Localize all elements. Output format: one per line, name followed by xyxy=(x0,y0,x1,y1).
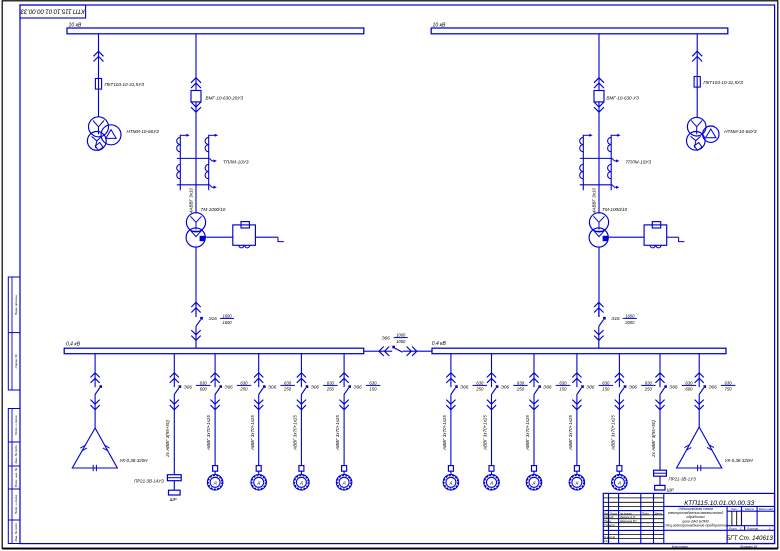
svg-text:Д: Д xyxy=(575,481,579,485)
incomer breaker QF Э16 (drawout) xyxy=(191,302,200,307)
svg-text:750: 750 xyxy=(725,387,733,392)
svg-text:630: 630 xyxy=(685,380,693,385)
svg-text:АВВГ 3х70+1х25: АВВГ 3х70+1х25 xyxy=(206,415,211,451)
feeder breaker QF Э06 xyxy=(450,354,452,388)
svg-text:Дата: Дата xyxy=(654,511,663,515)
wire breaker to CT to transformer xyxy=(195,102,197,214)
svg-text:Э06: Э06 xyxy=(224,384,233,389)
svg-text:Взам. инв. №: Взам. инв. № xyxy=(14,467,18,487)
feeder breaker QF Э06 xyxy=(214,354,216,388)
motor M xyxy=(251,475,267,491)
wire xyxy=(618,471,620,474)
motor terminal box xyxy=(213,466,218,472)
wire box to hook end xyxy=(255,236,278,238)
svg-text:ТПЛМ-10УЗ: ТПЛМ-10УЗ xyxy=(626,160,652,165)
svg-text:КТП115.10.01.00.00.33: КТП115.10.01.00.00.33 xyxy=(684,500,754,507)
svg-text:630: 630 xyxy=(476,380,484,385)
svg-text:Подп.: Подп. xyxy=(642,511,650,515)
svg-text:Д: Д xyxy=(342,481,346,485)
wire feeder down xyxy=(94,394,96,428)
svg-text:ПР21-3В-14УЗ: ПР21-3В-14УЗ xyxy=(134,479,164,484)
motor M xyxy=(526,475,542,491)
motor terminal box xyxy=(617,466,622,472)
disconnector QS chevrons xyxy=(692,51,702,56)
feeder breaker QF Э06 xyxy=(173,354,175,388)
svg-text:Э06: Э06 xyxy=(629,384,638,389)
svg-text:Листов: Листов xyxy=(746,526,758,530)
svg-text:Д: Д xyxy=(449,481,453,485)
svg-text:ТПЛМ-10УЗ: ТПЛМ-10УЗ xyxy=(223,160,249,165)
svg-text:Копировал: Копировал xyxy=(672,545,688,549)
svg-text:2х АВВГ 3(95+50): 2х АВВГ 3(95+50) xyxy=(651,420,656,458)
svg-text:250: 250 xyxy=(475,387,484,392)
wire feeder down xyxy=(214,394,216,465)
svg-text:Э06: Э06 xyxy=(709,384,718,389)
capacitor bank УК-0,38-320Н triangle xyxy=(72,428,117,468)
bus 0.4kV section 1 xyxy=(64,348,364,354)
svg-text:600: 600 xyxy=(200,387,208,392)
bus 0.4kV section 2 xyxy=(432,348,726,354)
svg-text:250: 250 xyxy=(283,387,292,392)
svg-text:Спец.электроснабжение предприя: Спец.электроснабжение предприятий xyxy=(663,524,727,528)
auxiliary box (arrester) xyxy=(233,225,256,245)
wire transformer secondary down xyxy=(598,247,600,317)
svg-text:Э06: Э06 xyxy=(460,384,469,389)
svg-text:250: 250 xyxy=(644,387,653,392)
svg-text:Подп. и дата: Подп. и дата xyxy=(14,415,18,435)
wire xyxy=(173,481,175,491)
svg-text:150: 150 xyxy=(369,387,377,392)
distribution cab ШР box xyxy=(655,485,665,490)
wire box to hook end xyxy=(667,236,679,238)
motor terminal box xyxy=(256,466,261,472)
svg-text:Подп. и дата: Подп. и дата xyxy=(14,495,18,515)
distribution cab ШР box xyxy=(169,490,181,495)
svg-text:150: 150 xyxy=(602,387,610,392)
feeder breaker QF Э06 xyxy=(576,354,578,388)
svg-text:Э06: Э06 xyxy=(543,384,552,389)
svg-text:Э06: Э06 xyxy=(311,384,320,389)
svg-text:4АВВГ 3х10: 4АВВГ 3х10 xyxy=(591,188,596,213)
svg-text:0,4 кВ: 0,4 кВ xyxy=(432,341,447,347)
svg-text:Э16: Э16 xyxy=(209,316,218,321)
svg-text:1600: 1600 xyxy=(222,313,232,318)
incomer breaker QF Э16 (drawout) xyxy=(594,302,603,307)
svg-text:2000: 2000 xyxy=(624,320,635,325)
voltage transformer TV НТМИ circles xyxy=(687,117,706,136)
wire feeder down xyxy=(450,394,452,465)
svg-text:КТП 115.10.01.00.00.33: КТП 115.10.01.00.00.33 xyxy=(20,7,85,14)
wire feeder down xyxy=(173,394,175,474)
wire transformer aux to arrester box xyxy=(205,236,233,238)
motor terminal box xyxy=(532,466,537,472)
wire xyxy=(258,471,260,474)
svg-text:НТМИ-10-66УЗ: НТМИ-10-66УЗ xyxy=(724,129,757,134)
svg-text:1000: 1000 xyxy=(396,333,406,338)
svg-text:ПКТ103-10-31,5УЗ: ПКТ103-10-31,5УЗ xyxy=(703,80,743,85)
wire transformer secondary down xyxy=(195,247,197,317)
fuse FU ПКТ103 xyxy=(694,77,700,88)
svg-text:1600: 1600 xyxy=(222,320,232,325)
svg-text:Э06: Э06 xyxy=(586,384,595,389)
svg-text:Д: Д xyxy=(299,481,303,485)
svg-text:УК-0,38-320Н: УК-0,38-320Н xyxy=(725,458,754,463)
wire 10kV VT branch x=697.2 xyxy=(696,34,698,118)
circuit breaker Q ВМГ-10 (drawout) xyxy=(191,78,201,83)
svg-text:Лит.: Лит. xyxy=(730,507,738,511)
svg-text:Утв.: Утв. xyxy=(604,539,611,543)
motor M xyxy=(336,475,352,491)
svg-text:Д: Д xyxy=(489,481,493,485)
svg-text:Э06: Э06 xyxy=(501,384,510,389)
svg-text:Э06: Э06 xyxy=(353,384,362,389)
wire feeder down xyxy=(258,394,260,465)
motor M xyxy=(207,475,223,491)
bus 10kV section 1 xyxy=(67,28,364,34)
svg-text:4АВВГ 3х10: 4АВВГ 3х10 xyxy=(188,188,193,213)
power transformer T ТМ-1000/10 xyxy=(589,213,608,232)
wire xyxy=(214,471,216,474)
svg-text:Э06: Э06 xyxy=(669,384,678,389)
svg-text:150: 150 xyxy=(559,387,567,392)
wire xyxy=(300,471,302,474)
feeder breaker QF Э06 xyxy=(618,354,620,388)
wire feeder down xyxy=(300,394,302,465)
motor terminal box xyxy=(299,466,304,472)
wire feeder down xyxy=(491,394,493,465)
svg-text:ТМ-1000/10: ТМ-1000/10 xyxy=(201,207,226,212)
svg-text:Инв. № дубл.: Инв. № дубл. xyxy=(14,444,18,463)
svg-text:10 кВ: 10 кВ xyxy=(69,22,82,28)
svg-text:630: 630 xyxy=(327,380,335,385)
wire xyxy=(491,471,493,474)
svg-text:АВВГ 3х70+1х25: АВВГ 3х70+1х25 xyxy=(293,415,298,451)
wire xyxy=(533,471,535,474)
svg-text:630: 630 xyxy=(284,380,292,385)
svg-text:УК-0,38-320Н: УК-0,38-320Н xyxy=(120,458,149,463)
feeder breaker QF Э06 xyxy=(491,354,493,388)
svg-text:250: 250 xyxy=(326,387,335,392)
svg-text:БГТ Ст. 140613: БГТ Ст. 140613 xyxy=(726,535,773,542)
svg-text:250: 250 xyxy=(239,387,248,392)
svg-text:250: 250 xyxy=(516,387,525,392)
svg-text:ТМ-1000/10: ТМ-1000/10 xyxy=(602,207,627,212)
svg-text:АВВГ 3х70+1х25: АВВГ 3х70+1х25 xyxy=(568,415,573,451)
disconnector QS chevrons xyxy=(94,51,104,56)
svg-text:Д: Д xyxy=(257,481,261,485)
svg-text:630: 630 xyxy=(369,380,377,385)
wire bus to breaker xyxy=(195,34,197,91)
svg-text:Э06: Э06 xyxy=(382,336,391,341)
svg-text:ВМГ-10-630-20УЗ: ВМГ-10-630-20УЗ xyxy=(206,95,244,100)
fuse box ПР21 xyxy=(167,475,181,481)
motor terminal box xyxy=(342,466,347,472)
svg-text:630: 630 xyxy=(517,380,525,385)
current transformers TA ТПЛМ-10УЗ xyxy=(179,135,181,190)
wire feeder down xyxy=(533,394,535,465)
svg-text:АВВГ 3х70+1х25: АВВГ 3х70+1х25 xyxy=(611,415,616,451)
wire feeder down xyxy=(576,394,578,465)
motor terminal box xyxy=(574,466,579,472)
current transformers TA ТПЛМ-10УЗ xyxy=(582,135,584,190)
svg-text:АВВГ 3х70+1х25: АВВГ 3х70+1х25 xyxy=(335,415,340,451)
wire breaker to CT to transformer xyxy=(598,102,600,214)
svg-text:АВВГ 3х70+1х25: АВВГ 3х70+1х25 xyxy=(483,415,488,451)
bus tie breaker QF Э06 (horizontal) xyxy=(364,350,379,352)
svg-text:НТМИ-10-66УЗ: НТМИ-10-66УЗ xyxy=(127,129,160,134)
svg-text:Лист: Лист xyxy=(728,526,737,530)
motor terminal box xyxy=(448,466,453,472)
svg-text:600: 600 xyxy=(685,387,693,392)
svg-text:2х АВВГ 3(95+50): 2х АВВГ 3(95+50) xyxy=(165,420,170,458)
feeder breaker QF Э06 xyxy=(533,354,535,388)
wire feeder down xyxy=(659,394,661,470)
svg-text:Д: Д xyxy=(617,481,621,485)
feeder breaker QF Э06 xyxy=(659,354,661,388)
svg-text:АВВГ 3х70+1х25: АВВГ 3х70+1х25 xyxy=(250,415,255,451)
feeder breaker QF Э06 xyxy=(698,354,700,388)
circuit breaker Q ВМГ-10 (drawout) xyxy=(594,78,604,83)
svg-text:ПР21-3В-1УЗ: ПР21-3В-1УЗ xyxy=(669,477,697,482)
svg-text:Инв. № подл.: Инв. № подл. xyxy=(14,522,18,541)
svg-text:0,4 кВ: 0,4 кВ xyxy=(66,342,81,348)
svg-text:Д: Д xyxy=(532,481,536,485)
svg-text:Перв. примен.: Перв. примен. xyxy=(14,294,18,315)
svg-text:АВВГ 3х70+1х25: АВВГ 3х70+1х25 xyxy=(442,415,447,451)
wire feeder down xyxy=(698,394,700,427)
designation stamp box (rotated) xyxy=(20,5,86,18)
wire feeder down xyxy=(343,394,345,465)
svg-text:Масштаб: Масштаб xyxy=(759,507,773,511)
svg-text:1000: 1000 xyxy=(396,339,406,344)
svg-text:Э06: Э06 xyxy=(184,384,193,389)
svg-text:ПКТ103-10-31,5УЗ: ПКТ103-10-31,5УЗ xyxy=(105,82,145,87)
motor M xyxy=(294,475,310,491)
svg-text:630: 630 xyxy=(602,380,610,385)
svg-text:Э06: Э06 xyxy=(268,384,277,389)
feeder breaker QF Э06 xyxy=(258,354,260,388)
wire transformer aux to arrester box xyxy=(608,236,644,238)
auxiliary box (arrester) xyxy=(644,225,667,245)
wire xyxy=(576,471,578,474)
svg-text:Э16: Э16 xyxy=(611,316,620,321)
wire feeder down xyxy=(618,394,620,465)
svg-text:ШР: ШР xyxy=(170,497,177,502)
svg-text:10 кВ: 10 кВ xyxy=(433,22,446,28)
svg-text:630: 630 xyxy=(559,380,567,385)
svg-text:630: 630 xyxy=(645,380,653,385)
wire xyxy=(343,471,345,474)
fuse FU ПКТ103 xyxy=(95,79,101,90)
svg-text:ВМГ-10-630-УЗ: ВМГ-10-630-УЗ xyxy=(606,95,639,100)
svg-text:630: 630 xyxy=(240,380,248,385)
svg-text:Шеминов В.Г.: Шеминов В.Г. xyxy=(620,519,638,523)
wire bus to breaker xyxy=(598,34,600,91)
svg-text:АВВГ 3х70+1х25: АВВГ 3х70+1х25 xyxy=(525,415,530,451)
motor M xyxy=(612,475,628,491)
left margin block (Перв. примен. / Справ. №) xyxy=(8,277,20,390)
motor M xyxy=(443,475,459,491)
fuse box ПР21 xyxy=(654,470,667,476)
bus 10kV section 2 xyxy=(431,28,728,34)
motor terminal box xyxy=(489,466,494,472)
svg-text:630: 630 xyxy=(725,380,733,385)
svg-text:1600: 1600 xyxy=(625,313,635,318)
feeder breaker QF Э06 xyxy=(300,354,302,388)
voltage transformer TV НТМИ circles xyxy=(89,117,109,137)
motor M xyxy=(569,475,585,491)
wire xyxy=(450,471,452,474)
motor M xyxy=(484,475,500,491)
svg-text:Т.контр.: Т.контр. xyxy=(604,523,616,527)
svg-text:630: 630 xyxy=(200,380,208,385)
svg-text:ШР: ШР xyxy=(667,488,674,493)
title block structure xyxy=(603,493,774,543)
svg-text:Д: Д xyxy=(213,481,217,485)
capacitor bank УК-0,38-320Н triangle xyxy=(677,427,722,468)
wire 10kV VT branch x=98.5 xyxy=(98,34,100,117)
feeder breaker QF Э06 xyxy=(343,354,345,388)
svg-text:Масса: Масса xyxy=(745,507,754,511)
feeder breaker QF Э06 xyxy=(94,354,96,388)
power transformer T ТМ-1000/10 xyxy=(186,213,205,232)
wire xyxy=(659,476,661,485)
svg-text:Справ. №: Справ. № xyxy=(14,354,18,369)
left margin block (Подп. и дата / Инв № дубл / Взам. инв. / Подп. и дата / Инв № подл) xyxy=(8,409,20,544)
svg-text:Формат А1: Формат А1 xyxy=(740,545,758,549)
